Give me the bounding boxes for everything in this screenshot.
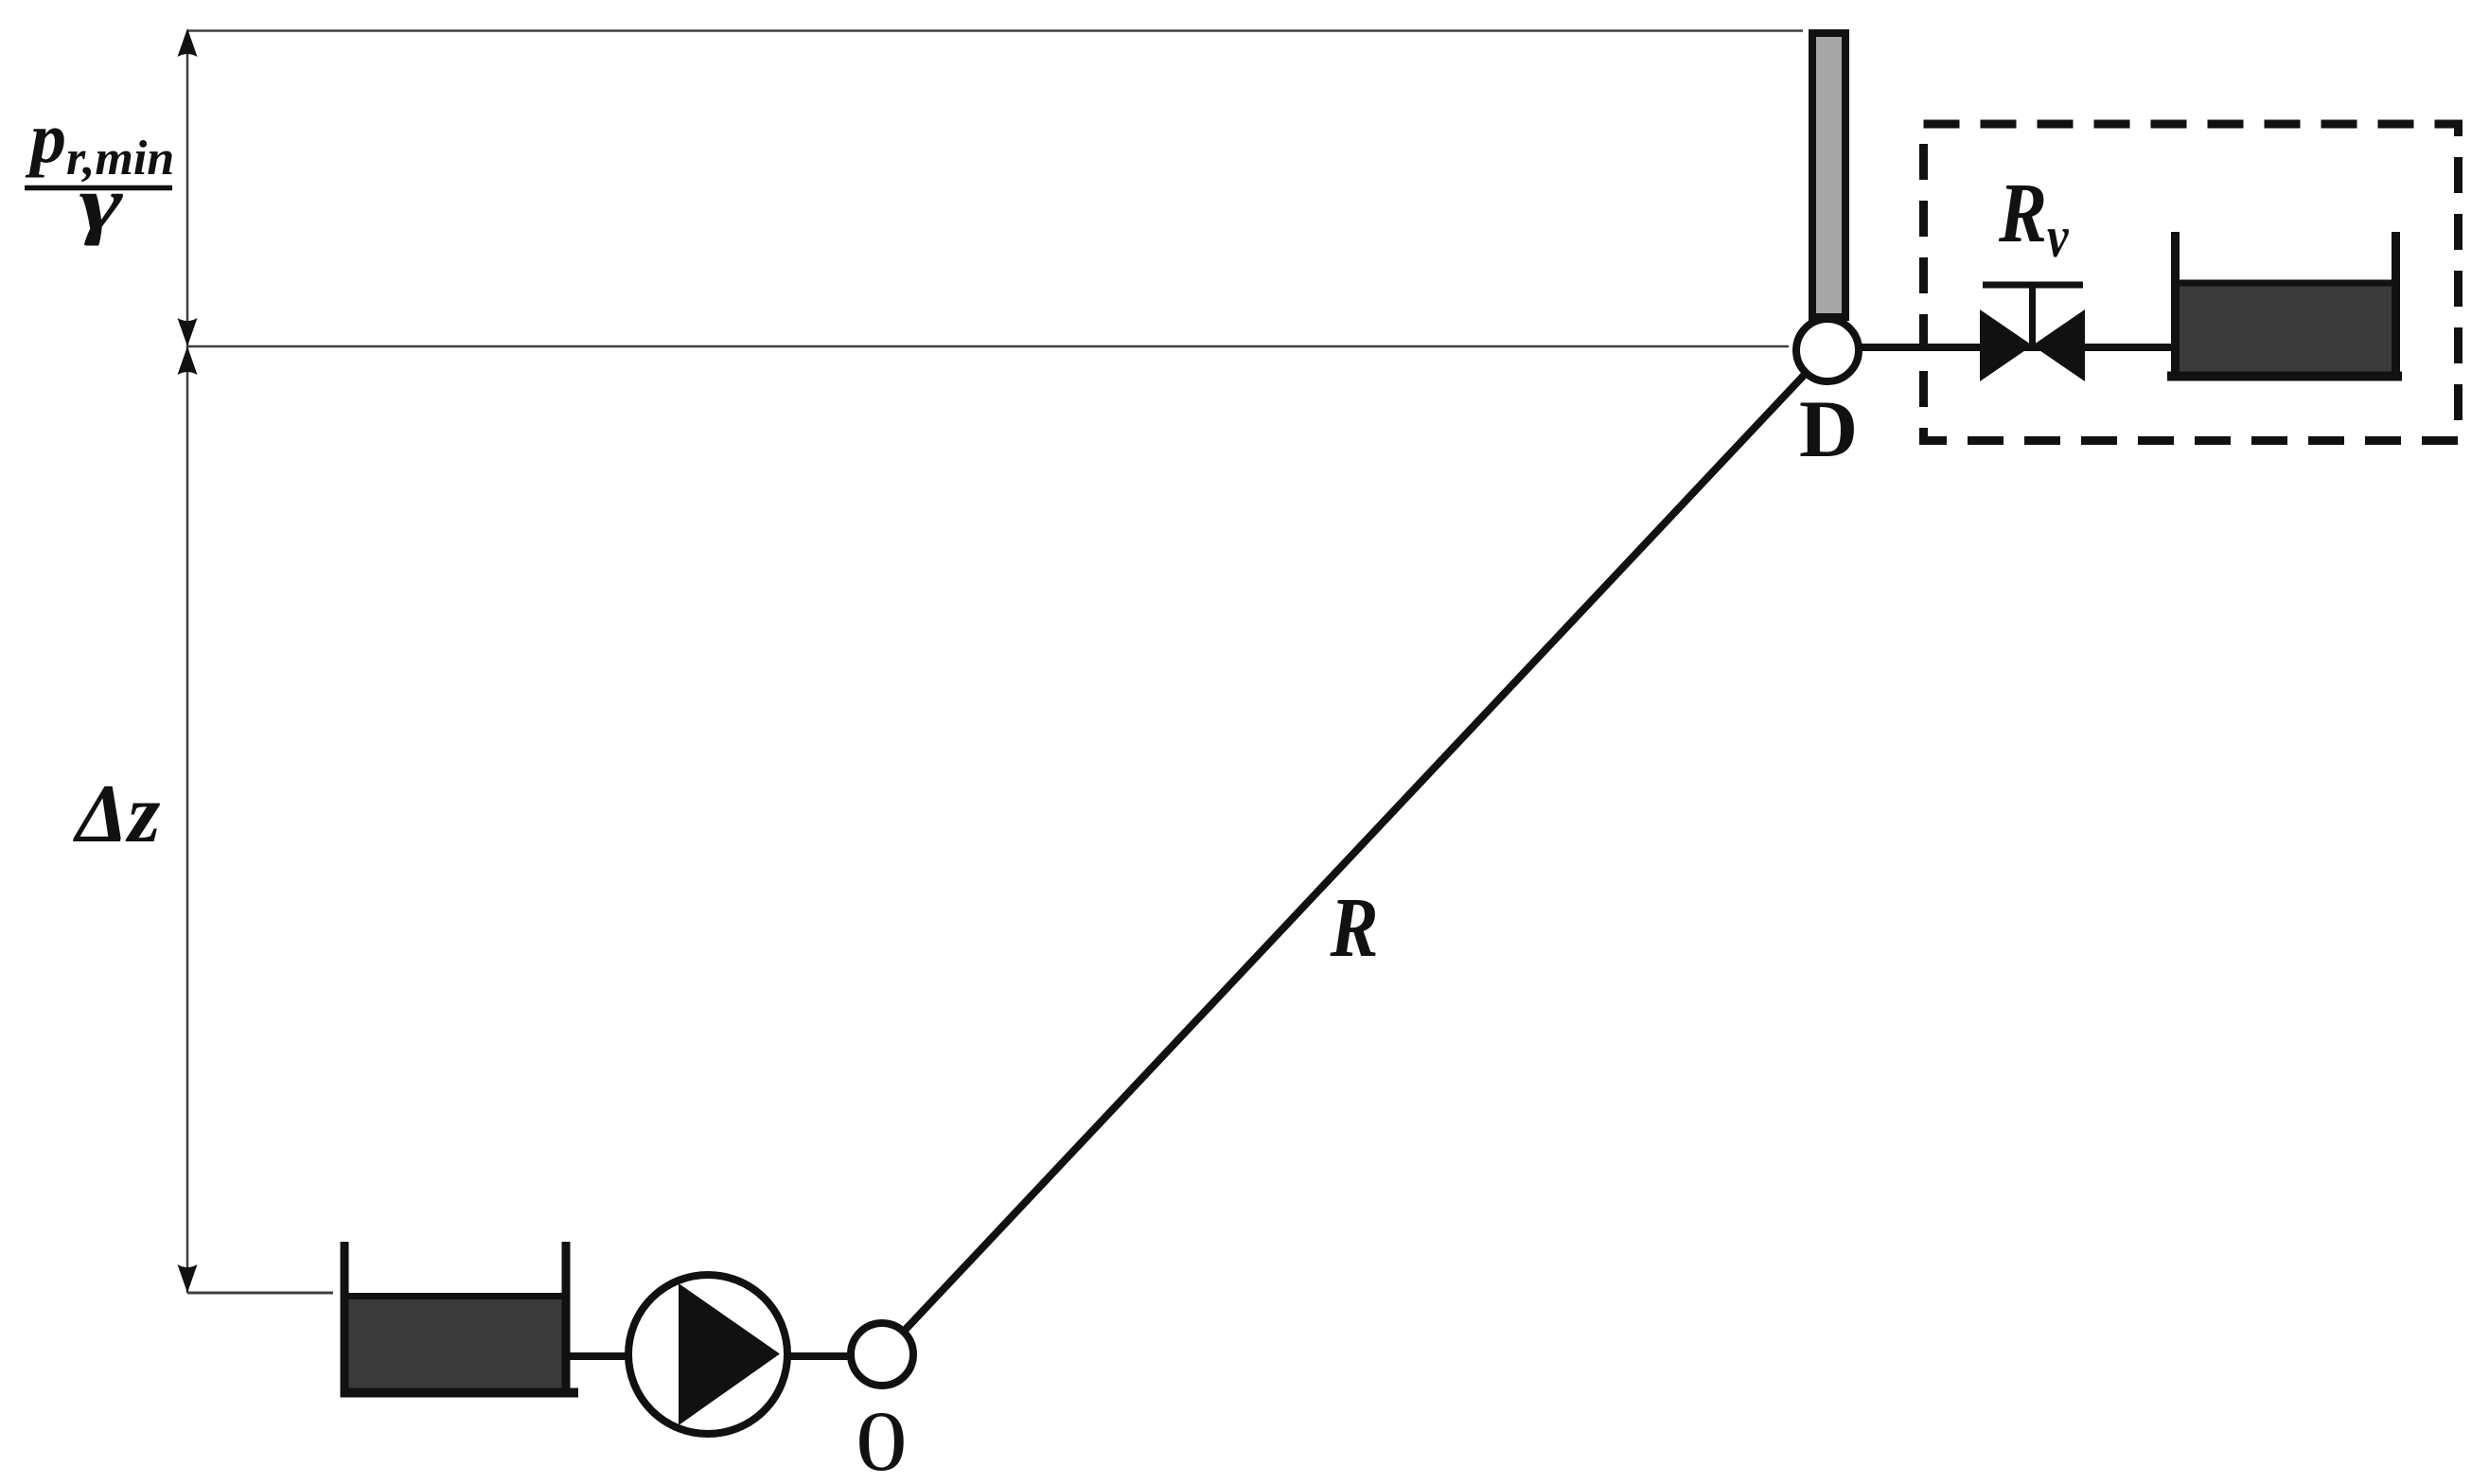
dimension extension line top (reservoir max level) — [187, 29, 1803, 32]
arrowhead up at top line — [178, 28, 198, 57]
label R_v — [1998, 167, 2069, 270]
pump impeller triangle — [679, 1283, 780, 1425]
upper tank left wall — [2171, 232, 2180, 380]
upper tank fill (water) — [2180, 280, 2392, 372]
lower tank water surface line — [344, 1293, 566, 1299]
valve T-handle bar — [1983, 282, 2083, 289]
riser pipe R (diagonal) — [882, 350, 1827, 1354]
lower tank right wall — [562, 1242, 571, 1397]
svg-text:D: D — [1799, 383, 1858, 474]
upper tank right wall — [2392, 232, 2400, 380]
arrowhead up below node D level — [178, 346, 198, 375]
arrowhead down at node D level — [178, 318, 198, 346]
svg-text:v: v — [2047, 204, 2069, 270]
node O circle — [851, 1323, 913, 1386]
valve Rv right triangle — [2033, 309, 2086, 381]
dimension extension line at lower tank water level — [187, 1292, 333, 1295]
node D circle — [1796, 319, 1859, 381]
vertical dimension line — [186, 31, 189, 1294]
upper tank water surface line — [2176, 280, 2396, 287]
lower tank left wall — [341, 1242, 349, 1397]
svg-text:p: p — [25, 98, 66, 178]
lower tank bottom wall — [341, 1388, 579, 1398]
pipe from lower tank through pump to node O — [566, 1352, 882, 1360]
upper tank bottom wall — [2167, 372, 2402, 381]
svg-text:R: R — [1330, 881, 1379, 975]
valve Rv left triangle — [1980, 309, 2033, 381]
svg-text:0: 0 — [856, 1394, 908, 1484]
label p_r,min / gamma — [25, 98, 174, 246]
piezometric riser bar (gray) above node D — [1812, 33, 1845, 317]
dashed demand box — [1924, 124, 2459, 441]
arrowhead down at lower water level — [178, 1264, 198, 1293]
svg-text:R: R — [1998, 167, 2047, 260]
pump circle — [628, 1275, 787, 1434]
svg-text:γ: γ — [79, 161, 124, 246]
valve T-handle stem — [2029, 285, 2036, 345]
svg-text:Δz: Δz — [73, 768, 160, 860]
pipe from node D to upper tank — [1827, 344, 2175, 351]
dimension extension line at node D level — [187, 345, 1789, 348]
lower tank fill (water) — [348, 1293, 562, 1388]
